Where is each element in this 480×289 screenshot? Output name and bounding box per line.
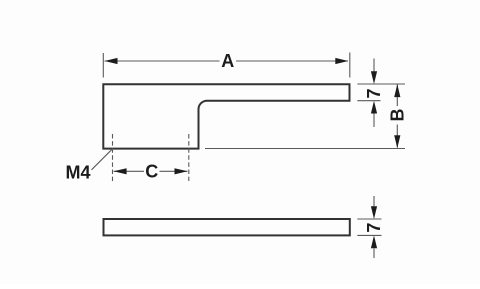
dim C arrowhead right [175, 168, 188, 174]
svg-text:A: A [221, 51, 234, 71]
svg-text:7: 7 [364, 88, 384, 98]
dim B arrowhead down [394, 135, 400, 148]
dim A arrowhead left [105, 58, 118, 64]
dim C arrowhead left [114, 168, 127, 174]
dim A extension line left [102, 53, 104, 78]
svg-text:M4: M4 [65, 163, 90, 183]
hole centerline (right, dashed) [188, 134, 190, 181]
dim 7 top-view arrow up [373, 113, 375, 127]
dim C dimension line [114, 170, 144, 172]
svg-text:B: B [388, 109, 408, 122]
M4 leader line [92, 149, 113, 170]
dim B extension line lower (long) [205, 148, 405, 150]
svg-text:C: C [145, 162, 158, 182]
dim 7 top-view arrow down [373, 59, 375, 73]
dim 7 bottom-view arrow down [373, 196, 375, 207]
dim 7 top-view extension line lower [357, 100, 380, 102]
dim 7 bottom-view extension line lower [357, 234, 381, 236]
handle bar outline (bottom view) [104, 219, 350, 235]
dim A extension line right [349, 53, 351, 78]
dim 7 top-view extension line upper [357, 83, 386, 85]
dim B dimension line lower segment [396, 125, 398, 148]
dim A arrowhead right [335, 58, 348, 64]
dim B extension line upper [386, 83, 405, 85]
dim 7 bottom-view extension line upper [357, 218, 381, 220]
dim B dimension line upper segment [396, 85, 398, 107]
dim B arrowhead up [394, 84, 400, 97]
M4 hole centerline (left, dashed) [112, 134, 114, 181]
svg-text:7: 7 [364, 223, 384, 233]
dim 7 bottom-view arrow up [373, 249, 375, 259]
handle profile outline (top view) [103, 84, 349, 148]
dim A dimension line [105, 60, 220, 62]
